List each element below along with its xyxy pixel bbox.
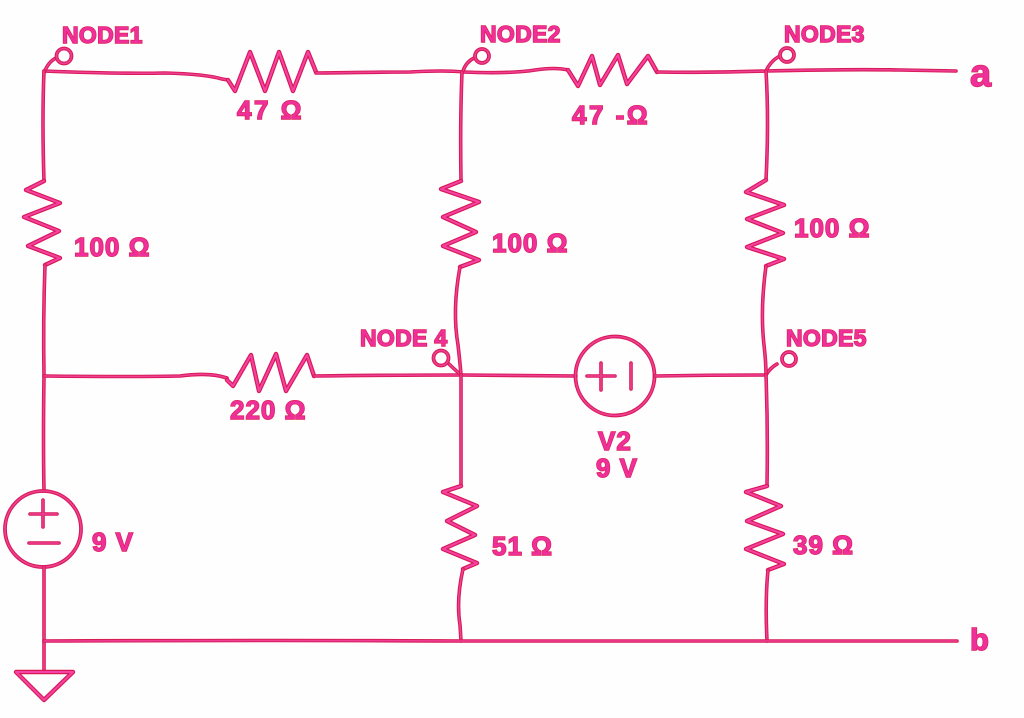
svg-text:a: a xyxy=(970,53,992,95)
label 47Ω (R2) xyxy=(572,100,650,130)
terminal b label xyxy=(970,622,989,657)
label NODE4 xyxy=(360,325,447,351)
resistor 100Ω (R3, left) xyxy=(24,181,60,265)
wire: middle rail R6 to NODE4 junction xyxy=(314,375,461,376)
wire: middle rail V2 to NODE5 junction xyxy=(655,375,766,376)
resistor 47Ω (R1, NODE1-NODE2) xyxy=(228,52,316,91)
V2 bar (terminal 1 mark) xyxy=(629,363,633,389)
label 51Ω (R7) xyxy=(492,531,553,561)
wire: right vertical R8 down to bottom rail xyxy=(766,570,768,641)
wire: bottom rail xyxy=(44,641,957,642)
wire: top rail R1 to NODE2 junction xyxy=(316,71,463,73)
V1 plus sign xyxy=(30,500,57,527)
resistor 51Ω (R7) xyxy=(443,486,477,569)
terminal a label xyxy=(970,53,992,95)
V2 plus sign xyxy=(587,363,615,390)
wire: middle vertical R7 down to bottom rail xyxy=(459,569,463,641)
label NODE3 xyxy=(784,21,865,47)
svg-text:NODE1: NODE1 xyxy=(62,22,143,48)
label NODE2 xyxy=(480,21,561,47)
svg-text:NODE3: NODE3 xyxy=(784,21,865,47)
wire: right vertical R5 down to NODE5 xyxy=(762,266,766,375)
resistor 47Ω (R2, NODE2-NODE3) xyxy=(568,55,657,86)
svg-text:100 Ω: 100 Ω xyxy=(794,213,870,243)
svg-text:9 V: 9 V xyxy=(596,453,638,483)
node NODE5 terminal loop xyxy=(766,352,796,375)
wire: left rail NODE1 down to R3 xyxy=(43,71,44,181)
wire: left rail middle junction down to V1 xyxy=(42,376,46,491)
svg-text:47 Ω: 47 Ω xyxy=(237,95,304,125)
resistor 100Ω (R4, middle) xyxy=(441,181,479,267)
svg-text:NODE2: NODE2 xyxy=(480,21,561,47)
wire: top rail R2 to NODE3 junction xyxy=(657,71,766,72)
svg-text:9 V: 9 V xyxy=(92,527,134,557)
svg-text:NODE5: NODE5 xyxy=(786,325,867,351)
voltage source V1 9V circle xyxy=(5,491,81,567)
wire: top rail left segment NODE1 to R1 xyxy=(44,71,228,80)
svg-text:100 Ω: 100 Ω xyxy=(492,228,568,258)
svg-text:39 Ω: 39 Ω xyxy=(793,530,854,560)
wire: right vertical NODE5 down to R8 xyxy=(766,375,767,486)
svg-text:V2: V2 xyxy=(598,426,632,456)
resistor 220Ω (R6) xyxy=(227,354,314,391)
wire: top rail NODE2 to R2 xyxy=(463,69,568,73)
node NODE1 terminal loop xyxy=(44,49,72,74)
wire: middle rail left junction to R6 xyxy=(44,374,227,378)
V1 minus sign xyxy=(29,541,59,545)
wire: right vertical NODE3 down to R5 xyxy=(766,71,768,180)
label 39Ω (R8) xyxy=(793,530,854,560)
label 9V (V2) xyxy=(596,453,638,483)
voltage source V2 circle xyxy=(576,337,655,416)
label 100Ω (R5) xyxy=(794,213,870,243)
label 47Ω (R1) xyxy=(237,95,304,125)
label 100Ω (R4) xyxy=(492,228,568,258)
wire: middle vertical R4 down to NODE4 xyxy=(455,267,461,375)
svg-text:100 Ω: 100 Ω xyxy=(74,232,150,262)
svg-text:b: b xyxy=(970,622,989,657)
node NODE2 terminal loop xyxy=(463,49,489,71)
wire: middle vertical NODE4 down to R7 xyxy=(459,375,463,486)
node NODE3 terminal loop xyxy=(766,48,794,71)
wire: top rail NODE3 to terminal a xyxy=(766,70,956,71)
label 220Ω (R6) xyxy=(230,395,306,425)
wire: middle vertical NODE2 down to R4 xyxy=(461,72,462,181)
svg-text:NODE 4: NODE 4 xyxy=(360,325,447,351)
label 9V (V1) xyxy=(92,527,134,557)
ground symbol xyxy=(16,672,73,700)
svg-text:51 Ω: 51 Ω xyxy=(492,531,553,561)
wire: V1 bottom to bottom rail xyxy=(42,567,46,641)
wire: left rail R3 down to middle rail junction xyxy=(44,265,45,376)
resistor 39Ω (R8) xyxy=(746,486,784,570)
resistor 100Ω (R5, right) xyxy=(746,180,784,266)
svg-text:47 -Ω: 47 -Ω xyxy=(572,100,650,130)
label V2 xyxy=(598,426,632,456)
label NODE5 xyxy=(786,325,867,351)
node NODE4 terminal loop xyxy=(434,351,462,376)
label 100Ω (R3) xyxy=(74,232,150,262)
svg-text:220 Ω: 220 Ω xyxy=(230,395,306,425)
wire: middle rail NODE4 to V2 xyxy=(461,375,576,376)
ground stub wire xyxy=(42,641,46,672)
label NODE1 xyxy=(62,22,143,48)
